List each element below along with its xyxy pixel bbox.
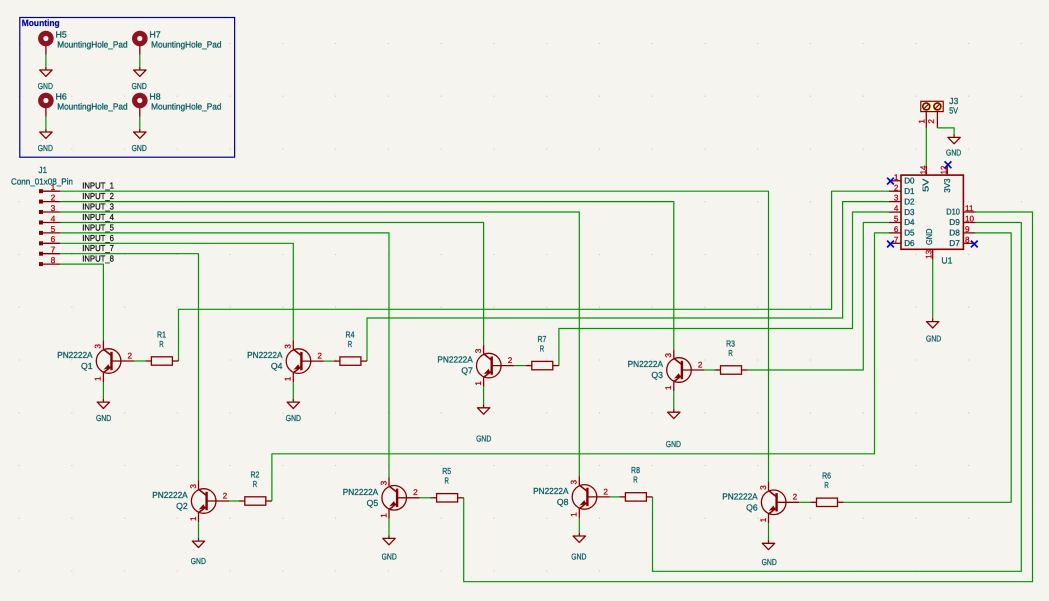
svg-text:INPUT_4: INPUT_4 xyxy=(82,212,114,222)
mounting hole H6 xyxy=(38,91,128,117)
svg-text:8: 8 xyxy=(51,255,56,265)
wire xyxy=(324,360,334,362)
svg-text:10: 10 xyxy=(965,215,975,224)
wire xyxy=(925,128,927,165)
svg-text:2: 2 xyxy=(894,183,899,192)
svg-text:GND: GND xyxy=(476,434,491,444)
svg-text:5: 5 xyxy=(894,215,899,224)
wire xyxy=(60,254,199,481)
ground xyxy=(946,134,961,158)
svg-text:1: 1 xyxy=(759,517,768,522)
svg-text:R5: R5 xyxy=(442,466,451,476)
wire xyxy=(799,501,810,503)
wire xyxy=(768,523,770,540)
wire xyxy=(704,369,714,371)
svg-text:PN2222A: PN2222A xyxy=(152,490,188,500)
svg-text:INPUT_1: INPUT_1 xyxy=(82,181,114,191)
net label INPUT_8 xyxy=(82,254,114,264)
svg-text:D0: D0 xyxy=(904,176,915,186)
ground xyxy=(926,318,941,343)
svg-text:R7: R7 xyxy=(537,334,546,344)
svg-text:R: R xyxy=(348,339,352,349)
transistor Q4 xyxy=(247,340,324,382)
svg-text:PN2222A: PN2222A xyxy=(533,486,569,496)
svg-text:GND: GND xyxy=(286,413,301,423)
svg-text:INPUT_2: INPUT_2 xyxy=(82,191,114,201)
svg-text:2: 2 xyxy=(413,488,418,497)
svg-text:1: 1 xyxy=(894,173,899,182)
svg-text:1: 1 xyxy=(94,376,103,381)
svg-text:5V: 5V xyxy=(921,178,931,192)
wire xyxy=(932,260,934,319)
transistor Q7 xyxy=(437,345,514,387)
svg-text:Q1: Q1 xyxy=(81,361,93,371)
svg-text:MountingHole_Pad: MountingHole_Pad xyxy=(151,102,221,112)
wire xyxy=(292,382,294,399)
wire xyxy=(367,202,889,362)
wire xyxy=(198,522,200,538)
svg-text:GND: GND xyxy=(191,556,206,566)
wire xyxy=(60,233,389,477)
net label INPUT_7 xyxy=(82,243,114,253)
wire xyxy=(60,243,293,340)
svg-text:2: 2 xyxy=(927,119,936,124)
svg-text:1: 1 xyxy=(189,516,198,521)
svg-text:1: 1 xyxy=(570,512,579,517)
wire xyxy=(653,223,1022,572)
svg-text:4: 4 xyxy=(51,213,56,223)
svg-text:Q8: Q8 xyxy=(557,497,569,507)
svg-text:R: R xyxy=(445,476,449,486)
wire xyxy=(60,212,579,476)
svg-text:PN2222A: PN2222A xyxy=(343,487,379,497)
svg-text:14: 14 xyxy=(919,165,928,174)
svg-text:1: 1 xyxy=(918,119,927,124)
resistor R5 xyxy=(431,466,464,502)
ground xyxy=(286,399,301,423)
wire xyxy=(60,264,103,340)
svg-text:R: R xyxy=(728,348,732,358)
wire xyxy=(388,519,390,535)
wire xyxy=(179,191,890,361)
svg-text:3V3: 3V3 xyxy=(942,178,952,192)
ground xyxy=(132,129,147,153)
svg-text:R2: R2 xyxy=(250,469,259,479)
svg-text:3: 3 xyxy=(94,344,103,349)
ground xyxy=(96,399,111,423)
svg-text:R4: R4 xyxy=(346,329,355,339)
wire xyxy=(45,55,47,67)
svg-text:GND: GND xyxy=(762,557,777,567)
net label INPUT_5 xyxy=(82,222,114,232)
svg-text:GND: GND xyxy=(924,229,934,246)
svg-text:4: 4 xyxy=(894,204,899,213)
net label INPUT_4 xyxy=(82,212,114,222)
wire xyxy=(45,117,47,129)
resistor R1 xyxy=(145,329,178,365)
svg-text:R6: R6 xyxy=(822,471,831,481)
svg-text:R: R xyxy=(253,479,257,489)
svg-text:D5: D5 xyxy=(904,228,915,238)
graphic box Mounting xyxy=(20,18,235,158)
svg-text:2: 2 xyxy=(793,493,798,502)
svg-text:INPUT_3: INPUT_3 xyxy=(82,202,114,212)
svg-text:1: 1 xyxy=(474,381,483,386)
svg-text:R: R xyxy=(159,339,163,349)
svg-text:R3: R3 xyxy=(726,338,735,348)
svg-text:GND: GND xyxy=(666,439,681,449)
svg-text:INPUT_5: INPUT_5 xyxy=(82,222,114,232)
ground xyxy=(191,538,206,566)
ground xyxy=(38,67,53,91)
svg-text:3: 3 xyxy=(474,348,483,353)
svg-text:GND: GND xyxy=(571,552,586,562)
wire xyxy=(60,202,674,350)
ground xyxy=(132,67,147,91)
wire xyxy=(464,212,1033,582)
svg-text:MountingHole_Pad: MountingHole_Pad xyxy=(57,102,127,112)
wire xyxy=(610,496,619,498)
svg-text:D1: D1 xyxy=(904,186,915,196)
transistor Q2 xyxy=(152,480,229,522)
resistor R6 xyxy=(810,471,843,507)
svg-text:9: 9 xyxy=(965,225,970,234)
transistor Q3 xyxy=(628,349,705,391)
no-connect xyxy=(887,241,894,248)
svg-text:J1: J1 xyxy=(38,165,47,175)
transistor Q8 xyxy=(533,476,610,518)
svg-text:11: 11 xyxy=(965,204,974,213)
svg-text:3: 3 xyxy=(51,203,56,213)
mounting hole H8 xyxy=(132,91,222,117)
svg-text:INPUT_8: INPUT_8 xyxy=(82,254,114,264)
svg-text:MountingHole_Pad: MountingHole_Pad xyxy=(57,40,127,50)
svg-text:Q2: Q2 xyxy=(176,501,188,511)
wire xyxy=(102,382,104,399)
mounting hole H5 xyxy=(38,29,128,55)
connector J3 xyxy=(918,96,959,128)
svg-text:2: 2 xyxy=(508,356,513,365)
svg-text:D7: D7 xyxy=(949,238,960,248)
svg-text:5V: 5V xyxy=(949,105,958,115)
resistor R4 xyxy=(334,329,367,365)
svg-text:Q3: Q3 xyxy=(651,370,663,380)
svg-text:3: 3 xyxy=(664,353,673,358)
svg-text:2: 2 xyxy=(51,193,56,203)
resistor R3 xyxy=(714,338,747,374)
svg-text:7: 7 xyxy=(51,245,56,255)
svg-text:R: R xyxy=(633,475,637,485)
svg-text:3: 3 xyxy=(759,485,768,490)
svg-text:3: 3 xyxy=(570,480,579,485)
svg-text:D4: D4 xyxy=(904,217,915,227)
svg-text:GND: GND xyxy=(38,81,53,91)
wire xyxy=(60,223,484,345)
transistor Q1 xyxy=(57,340,134,382)
svg-text:INPUT_6: INPUT_6 xyxy=(82,233,114,243)
no-connect xyxy=(945,161,952,168)
ground xyxy=(476,405,491,444)
svg-text:13: 13 xyxy=(925,249,934,258)
svg-text:H7: H7 xyxy=(149,29,160,39)
no-connect xyxy=(971,241,978,248)
wire xyxy=(748,223,889,371)
svg-text:6: 6 xyxy=(894,225,899,234)
svg-text:R1: R1 xyxy=(157,329,166,339)
wire xyxy=(514,365,526,367)
svg-text:2: 2 xyxy=(223,491,228,500)
svg-text:GND: GND xyxy=(96,413,111,423)
connector J1 xyxy=(11,165,73,266)
wire xyxy=(60,191,769,481)
svg-text:3: 3 xyxy=(379,480,388,485)
net label INPUT_3 xyxy=(82,202,114,212)
svg-text:1: 1 xyxy=(379,513,388,518)
wire xyxy=(578,518,580,533)
wire xyxy=(844,233,1012,502)
transistor Q6 xyxy=(722,482,799,524)
svg-text:2: 2 xyxy=(698,360,703,369)
svg-text:Q4: Q4 xyxy=(271,361,283,371)
svg-text:2: 2 xyxy=(603,487,608,496)
no-connect xyxy=(887,178,894,185)
svg-text:GND: GND xyxy=(132,81,147,91)
svg-text:R: R xyxy=(540,343,544,353)
svg-text:3: 3 xyxy=(894,194,899,203)
resistor R2 xyxy=(239,469,272,505)
ground xyxy=(571,533,586,562)
ground xyxy=(38,129,53,153)
svg-text:MountingHole_Pad: MountingHole_Pad xyxy=(151,40,221,50)
transistor Q5 xyxy=(343,477,420,519)
wire xyxy=(673,391,675,409)
svg-text:INPUT_7: INPUT_7 xyxy=(82,243,114,253)
wire xyxy=(229,500,239,502)
svg-text:Q5: Q5 xyxy=(367,498,379,508)
svg-text:5: 5 xyxy=(51,224,56,234)
net label INPUT_1 xyxy=(82,181,114,191)
wire xyxy=(139,55,141,67)
svg-text:D10: D10 xyxy=(946,207,960,217)
svg-text:Mounting: Mounting xyxy=(22,18,60,28)
svg-text:Q7: Q7 xyxy=(461,366,473,376)
svg-text:D8: D8 xyxy=(949,228,960,238)
net label INPUT_2 xyxy=(82,191,114,201)
svg-text:Conn_01x08_Pin: Conn_01x08_Pin xyxy=(11,176,73,186)
svg-text:D3: D3 xyxy=(904,207,915,217)
svg-text:2: 2 xyxy=(128,351,133,360)
ground xyxy=(666,409,681,449)
resistor R8 xyxy=(619,465,652,501)
wire xyxy=(483,387,485,405)
wire xyxy=(937,128,954,134)
svg-text:H5: H5 xyxy=(56,29,67,39)
svg-text:D9: D9 xyxy=(949,217,960,227)
svg-text:D2: D2 xyxy=(904,196,915,206)
svg-text:Q6: Q6 xyxy=(746,502,758,512)
svg-text:R: R xyxy=(824,480,828,490)
svg-text:1: 1 xyxy=(51,182,56,192)
svg-text:1: 1 xyxy=(284,376,293,381)
svg-text:1: 1 xyxy=(664,385,673,390)
svg-text:U1: U1 xyxy=(941,255,952,265)
svg-text:H6: H6 xyxy=(56,91,67,101)
svg-text:PN2222A: PN2222A xyxy=(722,491,758,501)
svg-text:GND: GND xyxy=(132,143,147,153)
svg-text:D6: D6 xyxy=(904,238,915,248)
mounting hole H7 xyxy=(132,29,222,55)
ground xyxy=(762,540,777,567)
wire xyxy=(139,117,141,129)
svg-text:3: 3 xyxy=(189,484,198,489)
svg-text:PN2222A: PN2222A xyxy=(57,350,93,360)
svg-text:PN2222A: PN2222A xyxy=(247,350,283,360)
svg-text:7: 7 xyxy=(894,235,899,244)
wire xyxy=(559,212,889,366)
svg-text:GND: GND xyxy=(382,551,397,561)
svg-text:8: 8 xyxy=(965,235,970,244)
svg-text:GND: GND xyxy=(926,334,941,344)
svg-text:3: 3 xyxy=(284,344,293,349)
svg-text:H8: H8 xyxy=(149,91,160,101)
resistor R7 xyxy=(526,334,559,370)
svg-text:GND: GND xyxy=(946,148,961,158)
wire xyxy=(420,497,431,499)
svg-text:6: 6 xyxy=(51,234,56,244)
svg-text:PN2222A: PN2222A xyxy=(437,355,473,365)
wire xyxy=(134,360,145,362)
svg-text:GND: GND xyxy=(38,143,53,153)
ground xyxy=(382,535,397,561)
net label INPUT_6 xyxy=(82,233,114,243)
svg-text:2: 2 xyxy=(317,352,322,361)
svg-text:R8: R8 xyxy=(631,465,640,475)
wire xyxy=(272,233,889,501)
IC U1 xyxy=(889,165,975,265)
svg-text:PN2222A: PN2222A xyxy=(628,359,664,369)
